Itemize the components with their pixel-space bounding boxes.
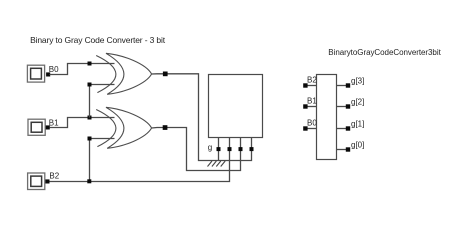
svg-text:B1: B1 [307,96,317,105]
pin dot B2 [45,179,49,183]
svg-text:B0: B0 [49,65,59,74]
svg-text:B2: B2 [307,75,317,84]
wire B2 port to block pin 2 [49,138,229,182]
svg-text:g: g [208,143,212,152]
symbol output pin g1 [337,128,347,130]
pin dot B0 [46,72,50,76]
symbol output pin g3 [337,85,347,87]
symbol label B0 [307,118,317,127]
symbol title [328,48,441,57]
XOR gate U2 (B1 xor B2) [96,107,151,148]
wire net B1 branch to XOR1 input B [90,85,115,118]
symbol label B2 [307,75,317,84]
junction dot XOR1 input B [88,83,92,87]
input port B2 [28,173,45,190]
junction dot XOR1 output [163,72,168,77]
symbol input dot B2 [303,83,307,87]
junction dot XOR2 input B [88,137,92,141]
diagram title [30,35,166,45]
wire B1 port to XOR2 input A [50,118,115,128]
wire B0 port to XOR1 input A [50,64,115,75]
svg-text:B0: B0 [307,118,317,127]
junction dot XOR2 output [163,125,168,130]
junction dot net B2 [87,179,91,183]
XOR gate U1 (B0 xor B1) [96,53,151,94]
symbol label g2 [351,98,364,107]
symbol input pin B1 [308,106,317,108]
wire XOR2 output to block pin 3 [152,128,241,171]
symbol input dot B0 [303,126,307,130]
pin dot 1 [217,147,221,151]
svg-text:g[1]: g[1] [351,120,364,129]
wire net B2 branch to XOR2 input B [90,139,115,182]
symbol label g1 [351,120,364,129]
junction dot net B0 [88,62,92,66]
pin dot B1 [46,125,50,129]
block pin 1 (dangling) [218,138,220,162]
pin dot 4 [250,147,254,151]
label B0 [49,65,59,74]
hatch marks (dangling link end) [208,161,226,167]
input port B1 [28,119,45,135]
svg-text:g[0]: g[0] [351,141,364,150]
svg-text:Binary to Gray Code Converter: Binary to Gray Code Converter - 3 bit [30,35,166,45]
symbol block BinarytoGrayCodeConverter3bit [317,75,337,160]
symbol input pin B2 [308,85,317,87]
label g [208,143,212,152]
pin dot 3 [239,147,243,151]
svg-text:B2: B2 [49,172,59,181]
symbol input pin B0 [308,128,317,130]
symbol label g3 [351,76,364,85]
symbol input dot B1 [303,104,307,108]
label B2 [49,172,59,181]
symbol label B1 [307,96,317,105]
label B1 [49,118,59,127]
symbol output dot g3 [346,83,350,87]
symbol output dot g2 [346,104,350,108]
svg-text:BinarytoGrayCodeConverter3bit: BinarytoGrayCodeConverter3bit [328,48,441,57]
symbol output pin g0 [337,149,347,151]
svg-text:B1: B1 [49,118,59,127]
symbol label g0 [351,141,364,150]
symbol output dot g0 [346,147,350,151]
pin dot 2 [228,147,232,151]
symbol output dot g1 [346,126,350,130]
wire XOR1 output to block pin 4 [152,74,252,161]
junction dot net B1 [88,116,92,120]
block g (gray code combiner) [209,75,263,138]
symbol output pin g2 [337,106,347,108]
input port B0 [27,65,44,82]
svg-text:g[3]: g[3] [351,76,364,85]
svg-text:g[2]: g[2] [351,98,364,107]
